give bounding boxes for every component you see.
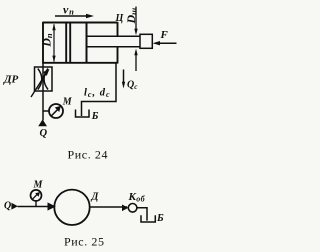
svg-text:lс, dс: lс, dс (84, 88, 111, 100)
svg-text:Б: Б (156, 213, 164, 224)
svg-text:Б: Б (91, 111, 99, 122)
svg-text:Dп: Dп (39, 33, 54, 48)
svg-text:Рис. 24: Рис. 24 (68, 148, 109, 162)
svg-text:vп: vп (63, 3, 75, 17)
svg-text:Рис. 25: Рис. 25 (64, 234, 105, 248)
svg-text:F: F (160, 29, 169, 41)
svg-text:ДР: ДР (3, 73, 19, 85)
svg-text:Q: Q (4, 201, 11, 212)
svg-text:М: М (33, 179, 44, 190)
svg-text:Коб: Коб (128, 191, 146, 204)
svg-text:Д: Д (91, 192, 100, 203)
svg-text:Dш: Dш (124, 8, 139, 25)
svg-text:М: М (62, 96, 73, 107)
svg-text:Qс: Qс (127, 80, 137, 92)
svg-text:Q: Q (40, 128, 48, 139)
